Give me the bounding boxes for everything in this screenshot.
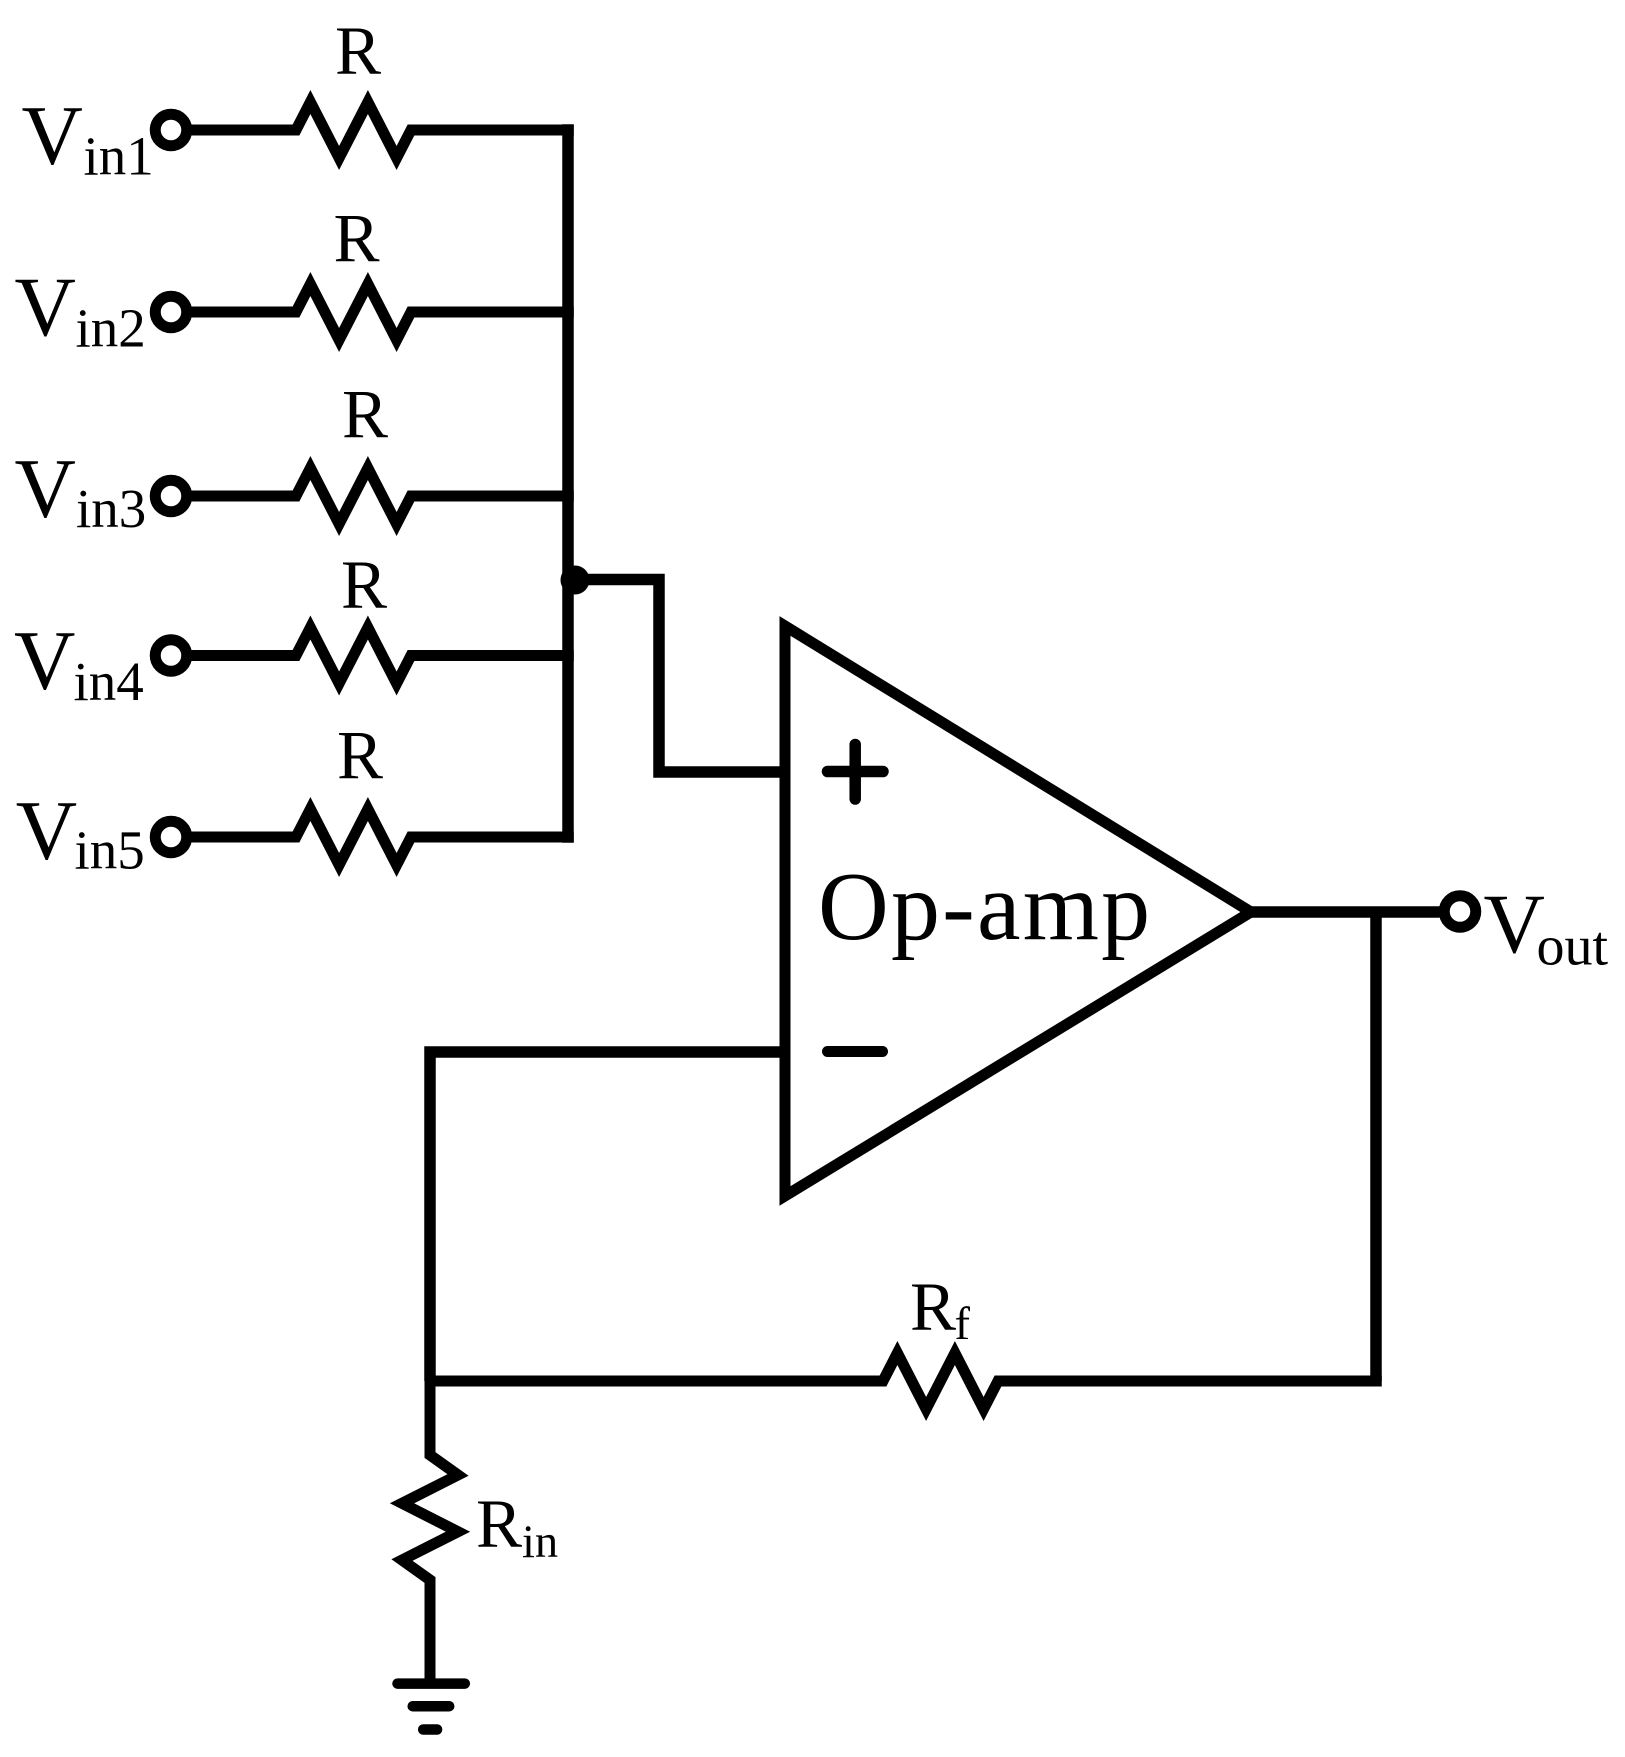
- svg-text:R: R: [476, 1486, 522, 1562]
- wire bus to op-amp noninverting input: [568, 580, 785, 773]
- node junction dot: [561, 566, 590, 595]
- terminal Vin2: [155, 296, 187, 328]
- op-amp plus input marker: [828, 745, 884, 800]
- resistor Rin: [402, 1381, 458, 1684]
- svg-text:R: R: [341, 547, 387, 623]
- label Vin5: [16, 783, 145, 880]
- label Vout: [1484, 877, 1609, 978]
- svg-text:V: V: [14, 613, 75, 707]
- svg-text:V: V: [15, 442, 76, 536]
- svg-text:Op-amp: Op-amp: [818, 853, 1152, 961]
- svg-text:R: R: [335, 13, 381, 89]
- terminal Vin4: [155, 640, 187, 672]
- svg-text:V: V: [22, 89, 83, 183]
- terminal Vin3: [155, 480, 187, 512]
- terminal Vin1: [155, 114, 187, 146]
- label Vin1: [22, 89, 154, 187]
- resistor Rf: [430, 1353, 1382, 1409]
- terminal Vout: [1444, 896, 1476, 928]
- label Rin: [476, 1486, 558, 1568]
- resistor R4: [191, 628, 574, 684]
- resistor R3: [191, 468, 574, 524]
- op-amp minus input marker: [828, 1046, 883, 1057]
- svg-text:R: R: [333, 201, 379, 277]
- wire inverting input: [430, 1052, 785, 1381]
- label Vin3: [15, 442, 147, 540]
- svg-text:V: V: [15, 260, 76, 354]
- svg-text:in3: in3: [76, 478, 146, 539]
- label Rf: [910, 1269, 971, 1350]
- label Vin2: [15, 260, 146, 359]
- svg-text:out: out: [1537, 916, 1609, 978]
- resistor R1: [191, 102, 574, 158]
- svg-text:V: V: [16, 783, 77, 877]
- terminal Vin5: [155, 821, 187, 853]
- svg-text:R: R: [337, 718, 383, 794]
- svg-text:in2: in2: [76, 298, 146, 359]
- resistor R2: [191, 284, 574, 340]
- ground: [398, 1684, 465, 1730]
- wire summing bus: [562, 124, 574, 842]
- svg-text:in4: in4: [74, 651, 144, 712]
- wire op-amp output: [1245, 906, 1440, 918]
- wire feedback from output: [1370, 912, 1382, 1381]
- svg-text:f: f: [955, 1299, 971, 1350]
- svg-text:in1: in1: [84, 126, 154, 187]
- resistor R5: [191, 809, 574, 865]
- label Vin4: [14, 613, 144, 712]
- svg-text:R: R: [342, 377, 388, 453]
- op-amp U1 triangle: [785, 626, 1251, 1196]
- svg-text:in5: in5: [75, 819, 145, 880]
- svg-text:in: in: [522, 1517, 558, 1568]
- svg-text:R: R: [910, 1269, 956, 1345]
